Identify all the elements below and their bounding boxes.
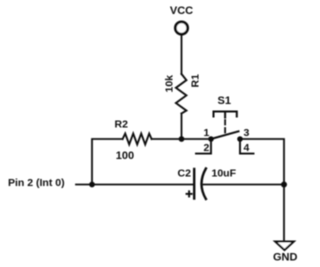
svg-text:C2: C2 [178,168,192,180]
svg-text:2: 2 [204,142,210,154]
switch S1 arm [211,131,239,139]
svg-text:VCC: VCC [170,5,193,17]
C2 polarity plus [187,191,192,196]
svg-text:S1: S1 [218,95,231,107]
svg-text:GND: GND [273,252,298,264]
svg-text:4: 4 [244,142,250,154]
node C junction dot (right) [281,182,287,188]
capacitor C2 curved plate [202,169,206,200]
wire corner to R2 [92,139,123,185]
svg-text:R1: R1 [190,74,202,88]
capacitor C2 positive plate [193,169,195,199]
power VCC terminal [170,5,193,34]
wire Pin 2 to C2 [76,184,194,186]
switch S1 actuator stem [224,112,226,118]
wire R1 to node A [181,114,183,140]
resistor R1 [176,74,187,114]
switch S1 pushbutton actuator [214,112,237,117]
svg-text:Pin 2 (Int 0): Pin 2 (Int 0) [8,177,65,189]
node A junction dot (R1 / R2 / S1 row) [179,136,185,142]
svg-text:1: 1 [204,127,210,139]
ground symbol [275,242,294,251]
switch S1 linkage (dashed) [224,120,226,133]
S1 pin 3 node [237,136,243,142]
node B junction dot (bottom row left) [89,182,95,188]
resistor R2 [123,134,152,145]
wire C2 to node C [204,184,285,186]
svg-text:R2: R2 [115,119,129,131]
wire R2 to S1 pin 1 [152,138,211,140]
S1 pin 2 stub [196,139,211,154]
wire VCC to R1 [181,35,183,74]
S1 pin 4 stub [240,139,254,154]
wire S1 pin 3 to right corner [240,139,284,185]
svg-text:100: 100 [116,150,134,162]
S1 pin 1 node [208,136,214,142]
svg-text:10uF: 10uF [212,168,237,180]
svg-text:3: 3 [244,127,250,139]
svg-text:10k: 10k [164,75,176,93]
wire node C to ground [283,185,285,242]
